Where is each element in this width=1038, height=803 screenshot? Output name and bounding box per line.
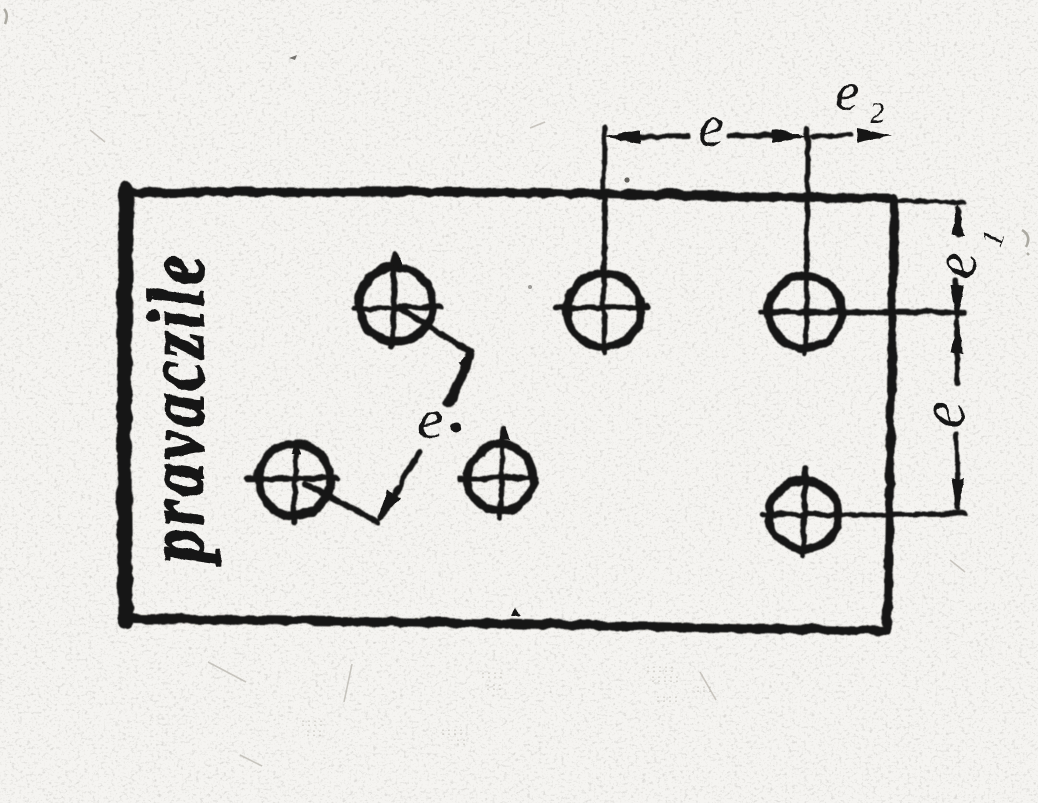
svg-text:e: e (697, 93, 723, 158)
hole H5 horizontal center line (458, 477, 535, 478)
hole H5 bottom-middle circle (467, 444, 533, 510)
ink speck inside plate near dimension (528, 285, 532, 289)
arrowhead up at top of right e dimension (950, 320, 963, 352)
svg-text:pravaczile: pravaczile (130, 251, 220, 566)
arrowhead down at bottom of right e dimension (950, 478, 963, 511)
top dimension line e2 (right span) (812, 134, 850, 135)
top edge extension line to e1 dimension (893, 199, 963, 201)
small tick on plate bottom edge (509, 606, 520, 615)
svg-text::::: ::: (485, 683, 503, 694)
hole H1 horizontal center line (353, 306, 440, 308)
svg-text:::::: :::: (480, 671, 504, 682)
svg-text::::: ::: (305, 729, 323, 740)
svg-text::::: ::: (695, 685, 713, 696)
stray mark top-left corner (4, 9, 7, 24)
arrowhead up at top of e1 dimension (951, 202, 964, 235)
arrowhead down at bottom of e1 dimension (950, 284, 963, 316)
ink speck near top edge (624, 177, 629, 182)
plate outline: right edge (886, 197, 893, 630)
hole H3 horizontal center line extended right to dimension (761, 308, 963, 314)
arrowhead right of top e2 dimension (856, 127, 891, 141)
e dimension vertical line (right side) (954, 320, 959, 382)
faint halftone dot patches lower middle (300, 665, 713, 749)
hole H2 top-middle circle (566, 272, 640, 346)
arrowhead of upper diagonal dimension (457, 351, 471, 369)
leader from hole H4 to diagonal dimension (305, 483, 377, 521)
hole H6 vertical center line (802, 468, 805, 554)
hole H4 vertical center line (293, 441, 295, 522)
ink blob at top of hole H5 center line (497, 426, 508, 438)
hole H4 bottom-left circle (258, 443, 330, 515)
svg-text:e: e (922, 251, 988, 278)
ink blob at top of hole H1 center line (389, 251, 402, 268)
leader from hole H1 to diagonal dimension (398, 307, 471, 352)
svg-text:e: e (909, 399, 977, 427)
hole H6 bottom-right circle (769, 480, 838, 549)
hole H1 vertical center line (391, 252, 394, 345)
plate outline: bottom edge (125, 618, 886, 630)
hole H5 vertical center line (499, 427, 502, 518)
svg-text:e: e (834, 60, 859, 122)
top dimension line e (left span) (638, 135, 688, 136)
svg-text:::::: :::: (655, 695, 679, 706)
ink speck above plate (289, 55, 297, 60)
hole H1 top-left circle (358, 266, 432, 340)
svg-text::::::: ::::: (650, 675, 680, 686)
ink blob at top of hole H4 center line (290, 441, 300, 453)
plate outline: top edge (125, 191, 893, 197)
hole H2 horizontal center line (554, 306, 646, 307)
hole H6 horizontal center line extended right to dimension (761, 513, 963, 514)
hole H3 vertical extension line (805, 128, 807, 352)
arrowhead of lower diagonal dimension (378, 489, 399, 519)
svg-text:::: :: (455, 738, 467, 749)
hole H2 vertical extension line from dimension to below hole (600, 128, 606, 352)
hole H3 top-right circle (768, 275, 841, 348)
plate outline: left edge (extra thick) (124, 189, 126, 621)
svg-text:e: e (417, 388, 442, 450)
stray mark right edge (1022, 230, 1029, 255)
faint scratch lower left (208, 662, 246, 682)
arrowhead left of top e dimension (603, 129, 639, 143)
arrowhead right-middle of top e dimension (771, 128, 806, 142)
diagonal dimension arrow shaft (upper) (448, 354, 469, 403)
e1 dimension vertical line (top right) (955, 206, 960, 235)
svg-text:2: 2 (869, 95, 884, 128)
diagonal dimension arrow shaft (lower) (380, 452, 418, 516)
hole H4 horizontal center line (247, 477, 337, 478)
